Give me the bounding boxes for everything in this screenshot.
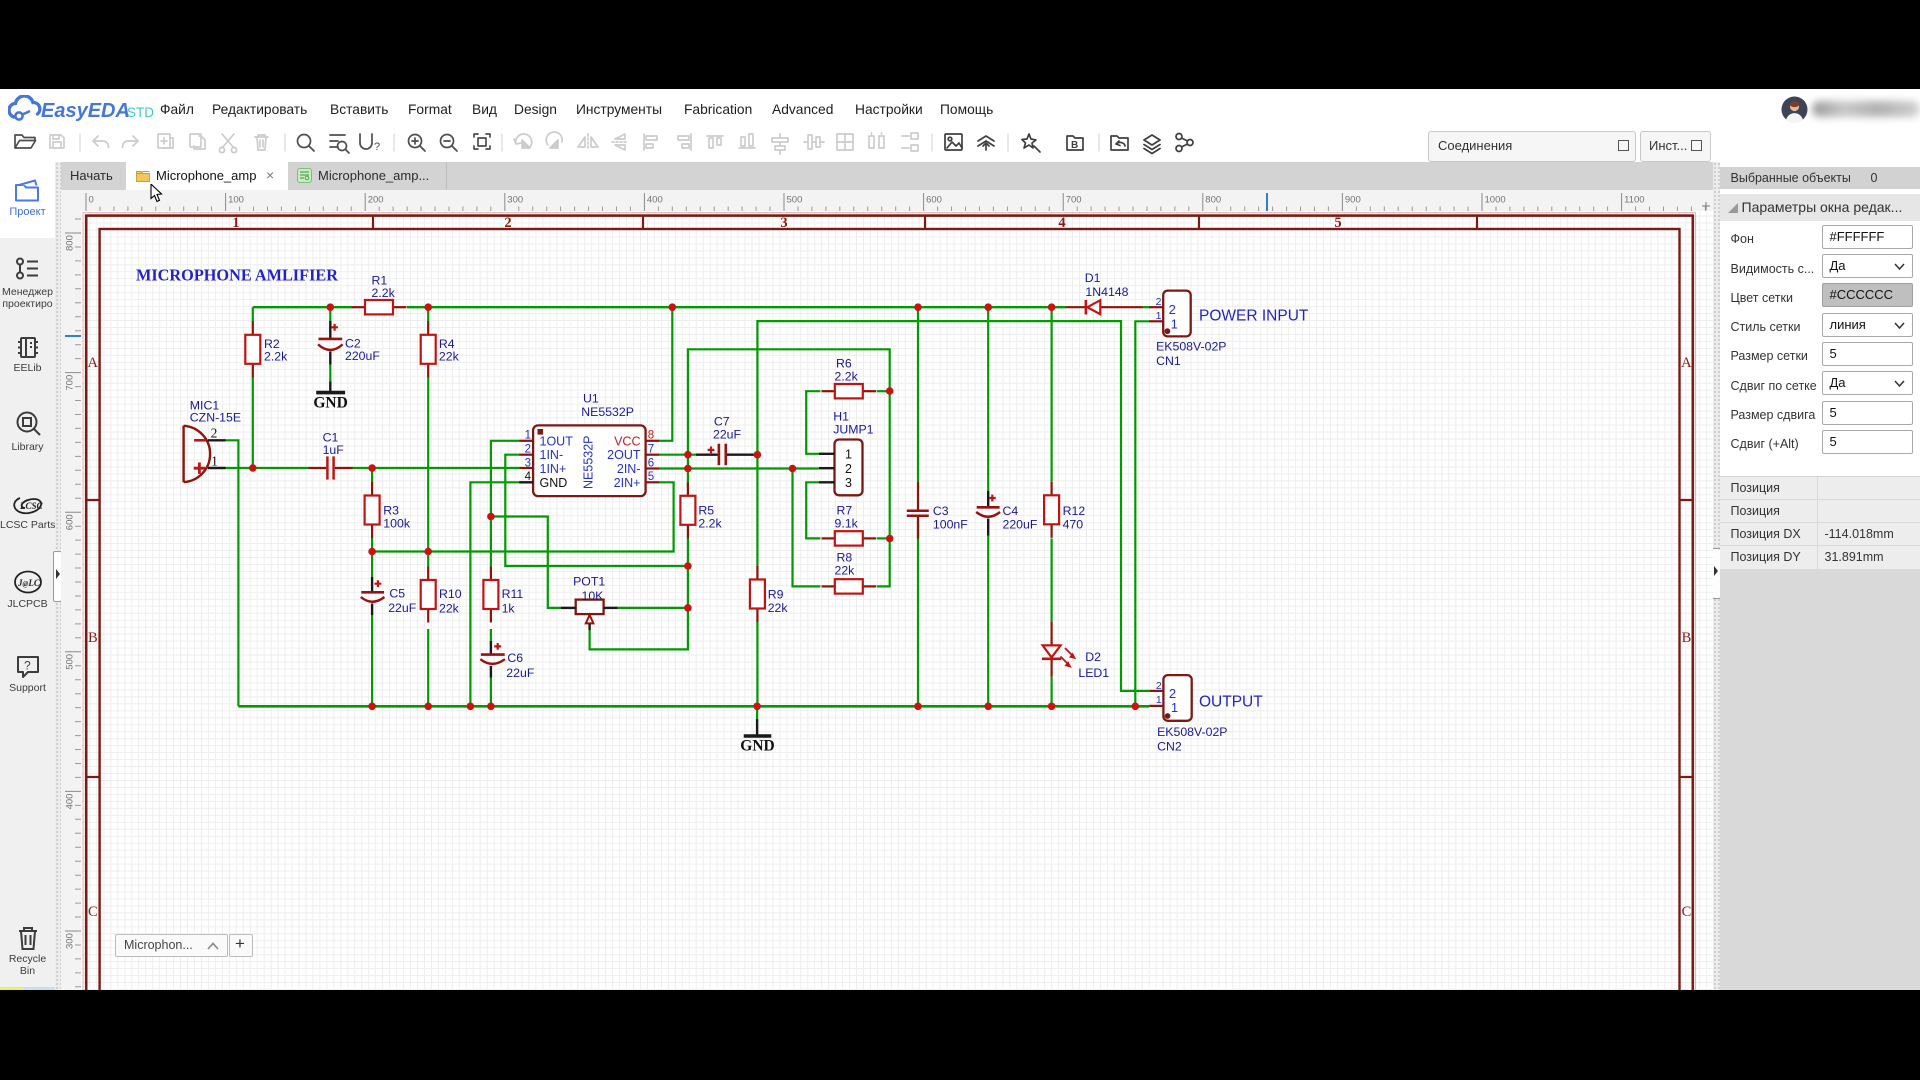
- resistor R1: [352, 300, 407, 314]
- wire output signal line: [757, 321, 1149, 691]
- svg-text:100nF: 100nF: [933, 518, 968, 532]
- svg-text:2: 2: [1156, 680, 1162, 692]
- svg-text:GND: GND: [540, 476, 568, 490]
- svg-text:9.1k: 9.1k: [835, 517, 859, 531]
- capacitor C6: [480, 641, 505, 678]
- avatar: [1781, 96, 1808, 123]
- layers up: [978, 136, 994, 146]
- wire ground rail: [238, 705, 1149, 708]
- svg-text:2.2k: 2.2k: [698, 517, 722, 531]
- svg-text:C7: C7: [714, 415, 730, 429]
- svg-text:2: 2: [504, 215, 511, 231]
- cut: [222, 134, 234, 148]
- aligns: [643, 134, 645, 150]
- svg-text:1: 1: [525, 430, 531, 442]
- svg-text:C5: C5: [389, 587, 405, 601]
- svg-text:R6: R6: [836, 357, 852, 371]
- svg-text:1N4148: 1N4148: [1085, 285, 1128, 299]
- svg-text:4: 4: [525, 471, 532, 483]
- sheet frame inner border: [100, 229, 1680, 1054]
- svg-text:22uF: 22uF: [713, 428, 742, 442]
- svg-text:D2: D2: [1085, 650, 1101, 664]
- wire GND pin4 drop: [470, 482, 519, 706]
- svg-text:OUTPUT: OUTPUT: [1199, 694, 1263, 711]
- svg-text:J@LC: J@LC: [17, 578, 41, 588]
- LED D2: [1042, 622, 1076, 677]
- svg-text:900: 900: [1345, 195, 1361, 206]
- Инст box: [1640, 131, 1711, 162]
- jumper H1: [819, 440, 863, 496]
- svg-text:1: 1: [1156, 310, 1162, 322]
- wire R7 right: [877, 537, 890, 539]
- svg-text:800: 800: [1205, 195, 1221, 206]
- zoom fit: [474, 134, 490, 149]
- ground GND bottom: [740, 719, 774, 755]
- position table: [1720, 476, 1920, 569]
- svg-text:A: A: [1681, 355, 1692, 371]
- svg-text:2.2k: 2.2k: [835, 370, 859, 384]
- svg-text:200: 200: [368, 195, 384, 206]
- svg-text:400: 400: [647, 195, 663, 206]
- yellow/blue bottom strip: [0, 987, 24, 990]
- svg-text:2IN-: 2IN-: [617, 462, 641, 476]
- resistor R9: [750, 566, 765, 622]
- capacitor C3: [907, 482, 929, 539]
- svg-text:22k: 22k: [835, 564, 856, 578]
- svg-text:3: 3: [845, 476, 852, 490]
- svg-text:JUMP1: JUMP1: [833, 423, 873, 437]
- svg-text:2IN+: 2IN+: [614, 476, 641, 490]
- diode D1: [1065, 300, 1143, 315]
- svg-text:1OUT: 1OUT: [540, 434, 574, 448]
- svg-text:?: ?: [374, 141, 380, 153]
- flip v: [612, 141, 628, 143]
- wire 1IN- loop: [505, 455, 688, 566]
- svg-text:D1: D1: [1085, 271, 1101, 285]
- resistor R4: [421, 321, 436, 377]
- sheet frame outer border: [86, 216, 1693, 1055]
- resistor R7: [822, 531, 877, 545]
- svg-text:800: 800: [65, 235, 76, 251]
- svg-text:1IN-: 1IN-: [540, 448, 564, 462]
- wire C5 branch: [371, 552, 373, 707]
- wire R6 feedback top: [688, 349, 890, 454]
- svg-text:4: 4: [1058, 215, 1065, 231]
- svg-text:NE5532P: NE5532P: [582, 435, 596, 489]
- bottom sheet selector: [115, 934, 228, 957]
- wire CN1 pin1 to ground: [1135, 321, 1149, 706]
- duplicate: [158, 134, 170, 148]
- svg-text:MICROPHONE AMLIFIER: MICROPHONE AMLIFIER: [136, 266, 339, 285]
- connector CN1: [1149, 291, 1191, 337]
- svg-text:EK508V-02P: EK508V-02P: [1156, 340, 1226, 354]
- folder back: [1111, 136, 1128, 150]
- save (disabled): [50, 135, 64, 148]
- wire R6-R7 junction vertical: [889, 391, 891, 539]
- wire C4 branch: [987, 307, 989, 706]
- frame row ticks: [85, 500, 1694, 777]
- image icon: [945, 134, 962, 150]
- svg-text:5: 5: [1334, 215, 1341, 231]
- wire VCC top rail: [253, 306, 1066, 308]
- svg-text:600: 600: [926, 195, 942, 206]
- wire H1 pin3 to R7: [806, 482, 820, 538]
- U1 pin names: [540, 434, 641, 490]
- svg-text:C: C: [88, 904, 98, 920]
- svg-text:1uF: 1uF: [323, 443, 345, 457]
- svg-text:1: 1: [1171, 700, 1178, 715]
- svg-text:470: 470: [1063, 518, 1084, 532]
- svg-text:R3: R3: [383, 504, 399, 518]
- svg-text:C3: C3: [933, 504, 949, 518]
- wire 2IN- line: [659, 467, 819, 469]
- svg-text:0: 0: [89, 195, 94, 206]
- wire R8 branch: [793, 469, 890, 587]
- svg-text:R5: R5: [698, 504, 714, 518]
- wire D1 to CN1 pin2: [1143, 306, 1149, 308]
- junction dots: [249, 303, 1139, 710]
- wire 1OUT loop: [491, 441, 519, 517]
- svg-text:400: 400: [65, 794, 76, 810]
- resistor R8: [822, 579, 877, 593]
- svg-text:1100: 1100: [1624, 195, 1644, 206]
- capacitor C4: [976, 491, 1000, 536]
- search: [298, 135, 311, 148]
- svg-text:700: 700: [1066, 195, 1082, 206]
- wire R3 branch: [371, 468, 373, 552]
- svg-text:600: 600: [65, 514, 76, 530]
- svg-text:5: 5: [648, 471, 654, 483]
- svg-text:100: 100: [228, 195, 244, 206]
- U?: [360, 134, 372, 149]
- cursor: [150, 184, 164, 204]
- Соединения box: [1428, 131, 1636, 162]
- resistor R3: [365, 482, 380, 538]
- capacitor C5: [361, 577, 385, 615]
- search list: [330, 135, 345, 147]
- svg-text:500: 500: [65, 654, 76, 670]
- svg-text:CZN-15E: CZN-15E: [190, 411, 241, 425]
- svg-text:2: 2: [211, 426, 218, 441]
- wire 1OUT to POT1 left: [491, 517, 561, 608]
- capacitor C1: [309, 456, 353, 479]
- flip h: [587, 134, 589, 150]
- svg-text:R11: R11: [502, 587, 524, 601]
- svg-text:2.2k: 2.2k: [264, 350, 288, 364]
- copy: [190, 134, 201, 147]
- open folder: [15, 135, 36, 148]
- microphone MIC1: [184, 426, 226, 483]
- svg-text:C: C: [1682, 904, 1692, 920]
- svg-text:22k: 22k: [439, 602, 460, 616]
- EasyEDA logo: [8, 95, 173, 125]
- folder B: [1067, 136, 1083, 150]
- svg-text:2: 2: [1156, 296, 1162, 308]
- frame column ticks: [373, 215, 1477, 230]
- wire C1 to 1IN+: [353, 467, 520, 469]
- svg-text:300: 300: [65, 933, 76, 949]
- wire 2IN+ line: [372, 482, 673, 551]
- svg-text:500: 500: [787, 195, 803, 206]
- ground GND under C2: [313, 393, 347, 412]
- wire R11 branch: [490, 517, 492, 707]
- undo/redo: [93, 136, 109, 148]
- svg-text:3: 3: [780, 215, 787, 231]
- rotate ccw: [514, 134, 532, 147]
- svg-text:1: 1: [845, 448, 852, 462]
- resistor R6: [822, 384, 877, 398]
- wire R5 chain vertical: [590, 455, 688, 650]
- wire R6 right: [877, 390, 890, 392]
- capacitor C7: [696, 444, 754, 466]
- svg-text:LCSC: LCSC: [19, 501, 43, 511]
- svg-text:8: 8: [648, 430, 654, 442]
- svg-text:GND: GND: [313, 395, 347, 412]
- svg-text:22k: 22k: [439, 350, 460, 364]
- svg-text:EasyEDA: EasyEDA: [41, 100, 130, 122]
- svg-text:POT1: POT1: [573, 575, 605, 589]
- op-amp U1 NE5532P: [519, 425, 659, 496]
- wire R10 branch: [427, 552, 429, 567]
- svg-text:R7: R7: [837, 504, 853, 518]
- svg-text:?: ?: [24, 659, 31, 673]
- zoom out: [441, 135, 454, 148]
- svg-text:220uF: 220uF: [345, 349, 380, 363]
- resistor R5: [680, 482, 695, 538]
- svg-text:2: 2: [1169, 686, 1176, 701]
- svg-text:10K: 10K: [582, 589, 605, 603]
- svg-text:1: 1: [1171, 316, 1178, 331]
- svg-text:22uF: 22uF: [388, 601, 417, 615]
- separators: [80, 134, 1099, 151]
- wire 2OUT to C7: [659, 454, 757, 456]
- svg-text:U1: U1: [583, 392, 599, 406]
- svg-text:100k: 100k: [383, 517, 411, 531]
- svg-text:R8: R8: [837, 551, 853, 565]
- svg-text:NE5532P: NE5532P: [581, 405, 634, 419]
- svg-text:2: 2: [845, 462, 852, 476]
- svg-text:B: B: [1682, 630, 1692, 646]
- wire R9 branch: [756, 455, 758, 707]
- wire MIC pin1 node: [226, 467, 309, 469]
- magic wand: [1022, 134, 1040, 152]
- wire VCC drop to pin8: [659, 307, 672, 441]
- svg-text:B: B: [1071, 140, 1078, 151]
- svg-text:CN1: CN1: [1156, 354, 1181, 368]
- second tab: [288, 162, 447, 190]
- svg-text:H1: H1: [833, 410, 849, 424]
- toolbar: [0, 122, 1210, 162]
- svg-text:1: 1: [1156, 694, 1162, 706]
- wire R12-D2 branch: [1050, 307, 1052, 706]
- resistor R2: [245, 321, 260, 377]
- svg-text:2: 2: [1169, 302, 1176, 317]
- svg-text:EK508V-02P: EK508V-02P: [1157, 725, 1227, 739]
- svg-text:R9: R9: [768, 588, 784, 602]
- connector CN2: [1149, 675, 1192, 721]
- svg-text:1k: 1k: [502, 602, 516, 616]
- zoom in: [409, 135, 422, 148]
- wire R2 branch vertical: [252, 307, 254, 468]
- svg-text:1000: 1000: [1485, 195, 1506, 206]
- svg-text:GND: GND: [740, 738, 774, 755]
- share: [1176, 134, 1182, 140]
- U1 pin numbers: [525, 430, 655, 484]
- wire MIC pin2 to ground rail: [226, 440, 239, 706]
- svg-text:VCC: VCC: [614, 434, 640, 448]
- svg-text:2: 2: [525, 444, 531, 456]
- svg-text:22k: 22k: [768, 601, 789, 615]
- svg-text:22uF: 22uF: [506, 666, 535, 680]
- wire R4-R10 branch vertical: [427, 307, 429, 706]
- svg-text:STD: STD: [127, 105, 154, 120]
- svg-text:7: 7: [648, 444, 654, 456]
- resistor R12: [1044, 482, 1059, 538]
- svg-text:R12: R12: [1063, 504, 1086, 518]
- svg-text:1: 1: [232, 215, 239, 231]
- svg-text:A: A: [88, 355, 99, 371]
- wire POT1 right to R5 chain: [618, 607, 688, 609]
- svg-text:700: 700: [65, 375, 76, 391]
- capacitor C2: [318, 321, 343, 391]
- rotate cw: [546, 132, 562, 145]
- resistor R10: [421, 567, 436, 623]
- svg-text:2OUT: 2OUT: [607, 448, 641, 462]
- svg-text:2.2k: 2.2k: [372, 286, 396, 300]
- svg-text:R10: R10: [439, 587, 462, 601]
- svg-text:LED1: LED1: [1078, 666, 1109, 680]
- svg-text:POWER INPUT: POWER INPUT: [1199, 308, 1309, 325]
- resistor R11: [483, 567, 498, 623]
- svg-text:6: 6: [648, 457, 654, 469]
- layers: [1144, 135, 1160, 154]
- svg-text:300: 300: [507, 195, 523, 206]
- potentiometer POT1: [561, 600, 618, 630]
- svg-text:220uF: 220uF: [1003, 518, 1038, 532]
- svg-text:1IN+: 1IN+: [540, 462, 567, 476]
- delete: [255, 135, 268, 150]
- wire GND symbol drop: [756, 706, 758, 719]
- wire C2 branch: [329, 307, 331, 322]
- svg-text:CN2: CN2: [1157, 740, 1182, 754]
- svg-text:B: B: [88, 630, 98, 646]
- svg-text:1: 1: [211, 454, 218, 469]
- svg-text:3: 3: [525, 457, 531, 469]
- svg-text:C6: C6: [507, 651, 523, 665]
- active tab: [126, 162, 288, 190]
- blurred username: [1812, 101, 1920, 117]
- wire H1 pin1 to R6: [806, 391, 820, 454]
- wire C3 branch: [917, 307, 919, 706]
- sheet frame outer pink line: [83, 213, 1696, 1055]
- svg-text:C4: C4: [1003, 504, 1019, 518]
